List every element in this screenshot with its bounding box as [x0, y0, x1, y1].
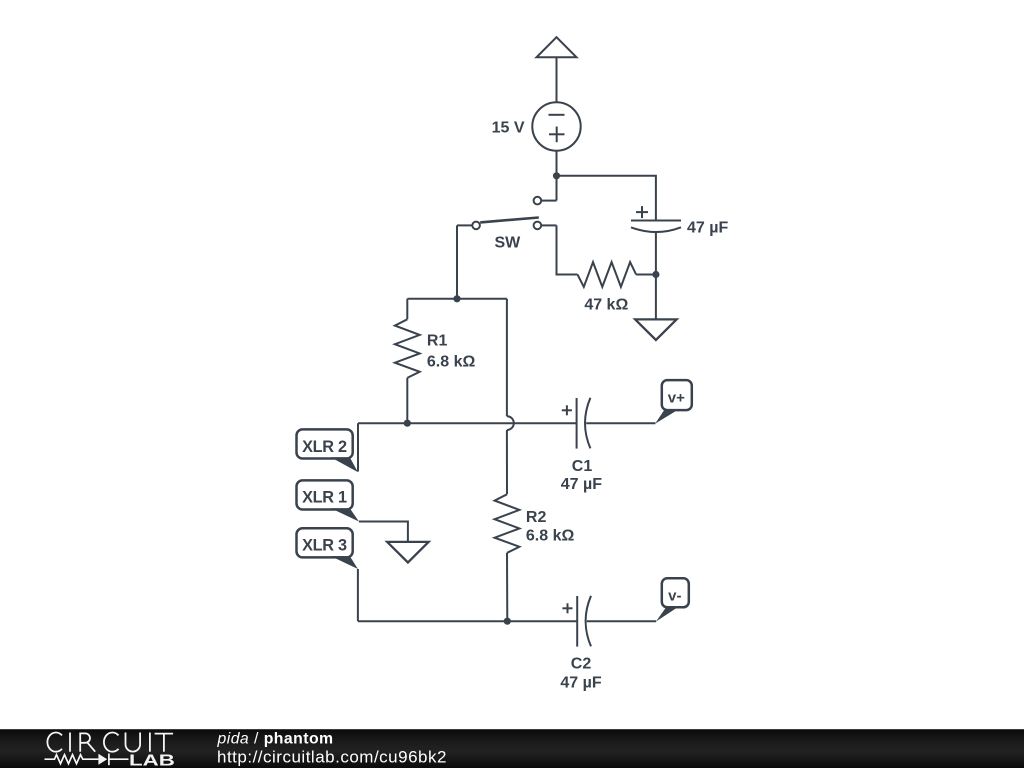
svg-text:47 kΩ: 47 kΩ	[584, 297, 628, 314]
svg-text:15 V: 15 V	[492, 120, 525, 137]
wire	[655, 275, 657, 320]
voltage source V1	[532, 102, 580, 150]
svg-text:XLR 1: XLR 1	[302, 488, 347, 506]
switch SW	[457, 197, 557, 229]
wire right vertical with hop	[507, 299, 514, 430]
CircuitLab logo wordmark CIRCUIT (thin stroked letters)	[47, 733, 173, 752]
svg-text:XLR 2: XLR 2	[302, 438, 347, 456]
resistor R2	[495, 430, 520, 621]
CircuitLab logo resistor-diode glyph	[45, 754, 129, 766]
svg-text:C1: C1	[572, 458, 593, 475]
svg-text:SW: SW	[495, 235, 522, 252]
svg-text:6.8 kΩ: 6.8 kΩ	[427, 353, 476, 370]
wire XLR2 stub	[357, 423, 359, 471]
ground (right)	[635, 319, 676, 340]
wire	[636, 274, 656, 276]
resistor R1	[395, 299, 420, 423]
wire	[557, 176, 656, 221]
svg-text:v-: v-	[668, 587, 681, 604]
wire	[655, 232, 657, 274]
svg-text:http://circuitlab.com/cu96bk2: http://circuitlab.com/cu96bk2	[217, 748, 447, 767]
svg-text:R2: R2	[526, 509, 547, 526]
wire switch throw to resistor	[557, 225, 578, 274]
wire bottom v- rail	[358, 620, 577, 622]
svg-text:47 µF: 47 µF	[561, 476, 602, 493]
svg-text:XLR 3: XLR 3	[302, 536, 347, 554]
node junction R2 bottom	[504, 618, 511, 625]
wire XLR1 to ground	[359, 522, 408, 542]
node junction top	[553, 172, 560, 179]
flag XLR 3	[297, 528, 358, 569]
footer bar	[0, 729, 1024, 768]
footer text pida / phantom	[217, 730, 447, 766]
power flag arrow (top rail)	[537, 37, 577, 57]
svg-text:v+: v+	[668, 389, 685, 406]
wire	[556, 151, 558, 176]
flag XLR 2	[297, 429, 358, 472]
wire switch common	[456, 225, 458, 298]
wire v+ node horizontal	[358, 422, 577, 424]
wire	[556, 57, 558, 102]
svg-text:LAB: LAB	[129, 752, 175, 768]
flag v+	[655, 380, 692, 424]
flag XLR 1	[297, 480, 359, 521]
wire R1 top rail	[407, 298, 507, 300]
wire XLR3 stub	[357, 569, 359, 621]
node junction R1 bottom	[404, 420, 411, 427]
capacitor C2	[562, 596, 591, 647]
node junction cap/resistor	[652, 271, 659, 278]
flag v-	[656, 578, 689, 621]
svg-text:6.8 kΩ: 6.8 kΩ	[526, 528, 575, 545]
svg-text:pida / phantom: pida / phantom	[217, 730, 334, 747]
capacitor C1	[562, 398, 591, 449]
svg-text:47 µF: 47 µF	[560, 674, 601, 691]
wire	[586, 422, 655, 424]
svg-text:C2: C2	[571, 656, 592, 673]
wire	[587, 620, 656, 622]
ground (XLR1)	[387, 542, 428, 563]
node junction switch-R1	[453, 295, 460, 302]
capacitor 47uF (top, polarized)	[631, 206, 681, 232]
resistor 47k (horizontal)	[578, 262, 637, 287]
wire	[556, 176, 558, 201]
svg-text:R1: R1	[427, 333, 448, 350]
svg-text:47 µF: 47 µF	[687, 219, 728, 236]
